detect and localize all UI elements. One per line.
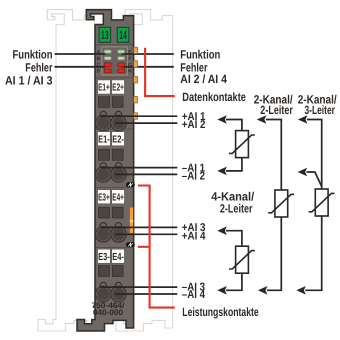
svg-text:E1-: E1- [98, 134, 110, 145]
svg-text:14: 14 [119, 28, 127, 42]
svg-text:Fehler: Fehler [25, 60, 52, 74]
svg-text:040-000: 040-000 [93, 308, 124, 317]
svg-text:3-Leiter: 3-Leiter [305, 103, 336, 117]
svg-text:2-Leiter: 2-Leiter [220, 202, 253, 216]
svg-text:AI 1 / AI 3: AI 1 / AI 3 [5, 73, 53, 87]
svg-text:E4-: E4- [112, 252, 124, 263]
svg-text:–AI 2: –AI 2 [182, 171, 205, 183]
svg-text:2-Leiter: 2-Leiter [260, 103, 293, 117]
svg-text:E3-: E3- [98, 252, 110, 263]
svg-text:E3+: E3+ [98, 192, 110, 203]
svg-text:D: D [97, 69, 101, 75]
svg-text:+AI 2: +AI 2 [182, 119, 206, 131]
svg-text:E1+: E1+ [98, 83, 110, 94]
svg-text:Datenkontakte: Datenkontakte [182, 90, 246, 104]
svg-text:Leistungskontakte: Leistungskontakte [182, 305, 259, 319]
svg-text:–AI 4: –AI 4 [182, 289, 206, 301]
svg-text:H: H [128, 69, 132, 75]
svg-text:+AI 4: +AI 4 [182, 231, 206, 243]
svg-text:E4+: E4+ [112, 192, 124, 203]
svg-text:AI 2 / AI 4: AI 2 / AI 4 [180, 72, 227, 86]
svg-text:B: B [97, 56, 101, 62]
svg-text:E2-: E2- [112, 134, 124, 145]
svg-text:13: 13 [101, 28, 109, 42]
svg-text:E2+: E2+ [112, 83, 124, 94]
svg-text:Funktion: Funktion [180, 47, 220, 61]
svg-text:F: F [128, 56, 131, 62]
